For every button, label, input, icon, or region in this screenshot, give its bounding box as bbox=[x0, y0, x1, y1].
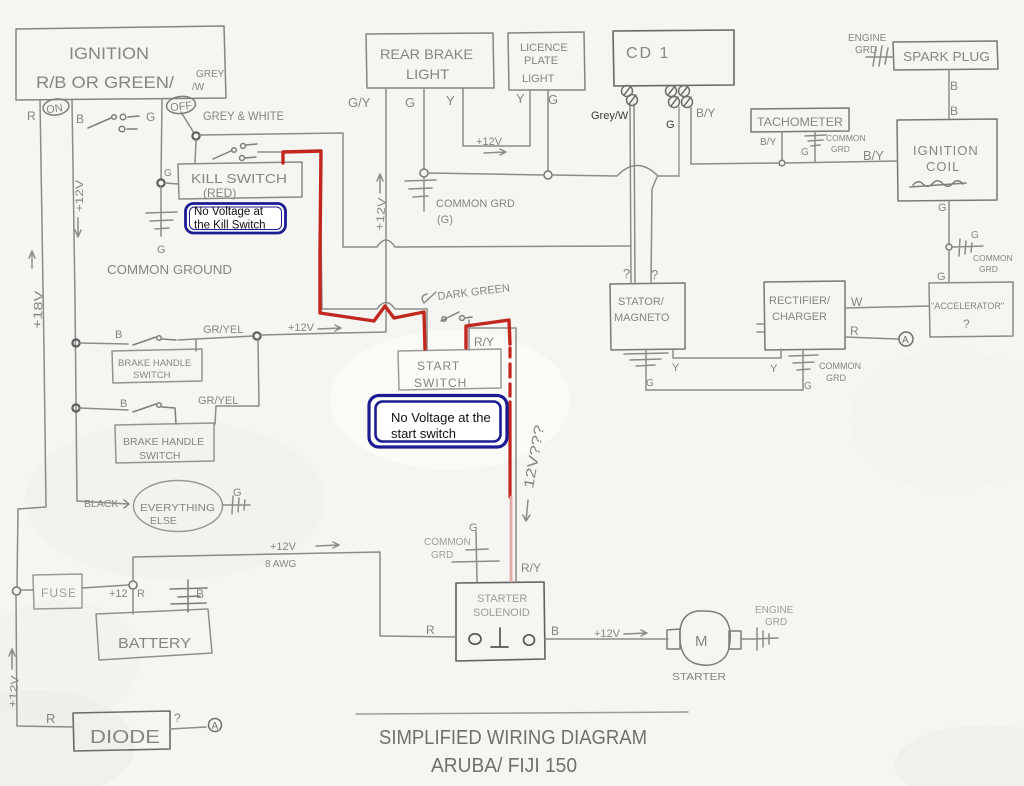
block STATOR/MAGNETO bbox=[610, 283, 685, 350]
wire node down into kill switch bbox=[195, 140, 196, 163]
node OFF junction bbox=[192, 132, 199, 139]
svg-text:ENGINE: ENGINE bbox=[848, 33, 887, 44]
wire R rectifier to point A bbox=[845, 337, 898, 339]
node licence ground bbox=[544, 171, 552, 179]
svg-text:+12: +12 bbox=[109, 588, 128, 600]
wire battery node down bbox=[132, 589, 134, 614]
svg-text:CD 1: CD 1 bbox=[626, 45, 670, 62]
wire start switch pencil into box and R/Y down to solenoid bbox=[469, 320, 516, 582]
svg-text:No Voltage at the: No Voltage at the bbox=[391, 410, 491, 425]
wire node to diode bbox=[16, 595, 73, 727]
paper shading bbox=[0, 330, 1024, 786]
svg-text:ELSE: ELSE bbox=[150, 515, 177, 527]
svg-text:COIL: COIL bbox=[926, 159, 960, 174]
block CD1 bbox=[613, 30, 734, 86]
svg-text:G: G bbox=[469, 522, 478, 534]
wire B from ignition down (black wire) bbox=[72, 100, 77, 501]
block BRAKE HANDLE SWITCH 2 bbox=[115, 423, 214, 463]
ground common ground below kill switch node bbox=[146, 187, 177, 236]
block REAR BRAKE LIGHT bbox=[366, 33, 494, 88]
arrow up +18V left side bbox=[29, 251, 35, 268]
svg-text:No Voltage at: No Voltage at bbox=[194, 206, 264, 218]
svg-text:GR/YEL: GR/YEL bbox=[198, 395, 238, 407]
motor STARTER left tab bbox=[667, 629, 680, 649]
svg-text:G: G bbox=[971, 230, 979, 241]
arrow +12V battery wire bbox=[316, 542, 339, 548]
wire node1 to brake switch 1 bbox=[80, 343, 128, 344]
wire G from ignition bbox=[161, 100, 162, 180]
block STARTER SOLENOID bbox=[456, 582, 545, 661]
arrow dark green pointer bbox=[422, 292, 436, 303]
title underline bbox=[356, 712, 688, 714]
svg-text:SPARK PLUG: SPARK PLUG bbox=[903, 49, 990, 64]
svg-text:B: B bbox=[76, 112, 84, 126]
wire B spark plug to ignition coil bbox=[948, 70, 950, 119]
svg-text:IGNITION: IGNITION bbox=[913, 143, 979, 158]
svg-text:LICENCE: LICENCE bbox=[520, 42, 568, 54]
svg-text:STARTER: STARTER bbox=[477, 593, 527, 605]
wire W rectifier to accelerator bbox=[845, 306, 929, 308]
node brake switch 1 tap bbox=[72, 339, 79, 346]
svg-text:+12V: +12V bbox=[594, 628, 621, 640]
svg-text:GRD: GRD bbox=[765, 617, 787, 628]
block RECTIFIER/CHARGER bbox=[764, 281, 845, 350]
svg-text:G: G bbox=[146, 110, 155, 124]
wire B/Y CD1 to tachometer line bbox=[691, 107, 779, 164]
svg-text:+12V: +12V bbox=[476, 136, 503, 148]
ground rectifier common grd bbox=[789, 349, 818, 390]
svg-text:STARTER: STARTER bbox=[672, 671, 726, 683]
svg-text:B/Y: B/Y bbox=[760, 137, 776, 148]
svg-text:B: B bbox=[115, 329, 122, 341]
wire +12V node2 to G/Y junction bbox=[261, 332, 386, 335]
svg-text:COMMON: COMMON bbox=[819, 361, 861, 371]
svg-text:GREY: GREY bbox=[196, 69, 225, 80]
svg-text:R: R bbox=[850, 324, 859, 338]
wire red highlight start switch to R/Y bbox=[466, 320, 510, 348]
node kill switch G junction bbox=[157, 179, 164, 186]
block EVERYTHING ELSE (ellipse) bbox=[134, 481, 223, 532]
svg-text:W: W bbox=[851, 295, 863, 309]
svg-text:COMMON GROUND: COMMON GROUND bbox=[107, 262, 232, 277]
svg-text:R: R bbox=[426, 623, 435, 637]
wire G ignition coil down bbox=[948, 201, 950, 243]
switch pivot circles start switch bbox=[442, 317, 446, 321]
switch contacts ignition bbox=[88, 116, 139, 129]
svg-text:COMMON: COMMON bbox=[973, 253, 1013, 263]
ground stator magneto bbox=[624, 349, 668, 390]
svg-text:REAR BRAKE: REAR BRAKE bbox=[380, 46, 473, 62]
wire node to fuse bbox=[21, 589, 33, 591]
svg-text:G: G bbox=[938, 202, 947, 214]
svg-text:BATTERY: BATTERY bbox=[118, 635, 191, 652]
wire G licence down bbox=[547, 90, 549, 171]
svg-text:CHARGER: CHARGER bbox=[772, 311, 827, 323]
svg-text:M: M bbox=[695, 633, 708, 650]
svg-text:?: ? bbox=[174, 711, 181, 725]
svg-text:PLATE: PLATE bbox=[524, 55, 558, 67]
wire G ground bus stator to rectifier bbox=[646, 389, 803, 391]
svg-text:COMMON GRD: COMMON GRD bbox=[436, 198, 515, 210]
wire horizontal to stator with hump over G/Y bbox=[343, 240, 631, 247]
block IGNITION COIL bbox=[897, 119, 997, 201]
wire solenoid B to starter bbox=[545, 638, 668, 640]
svg-text:Grey/W: Grey/W bbox=[591, 110, 629, 122]
svg-text:GRD: GRD bbox=[831, 144, 850, 154]
wire tachometer B/Y pin bbox=[781, 132, 783, 160]
svg-text:BRAKE HANDLE: BRAKE HANDLE bbox=[123, 436, 204, 448]
svg-text:RECTIFIER/: RECTIFIER/ bbox=[769, 295, 831, 307]
svg-text:G: G bbox=[157, 244, 166, 256]
svg-text:LIGHT: LIGHT bbox=[406, 66, 449, 82]
svg-text:R: R bbox=[27, 109, 36, 123]
svg-text:B/Y: B/Y bbox=[696, 106, 715, 120]
svg-text:B: B bbox=[120, 398, 127, 410]
node battery positive bbox=[129, 581, 137, 589]
svg-text:ON: ON bbox=[46, 102, 64, 116]
svg-text:IGNITION: IGNITION bbox=[69, 44, 149, 63]
svg-text:FUSE: FUSE bbox=[41, 586, 77, 600]
svg-text:B: B bbox=[950, 79, 958, 93]
arrow +12V to starter bbox=[624, 630, 647, 636]
svg-text:B: B bbox=[950, 104, 958, 118]
svg-text:"ACCELERATOR": "ACCELERATOR" bbox=[931, 301, 1004, 311]
svg-text:R: R bbox=[137, 588, 145, 600]
svg-text:/W: /W bbox=[192, 82, 205, 93]
block SPARK PLUG bbox=[893, 41, 998, 70]
svg-text:G/Y: G/Y bbox=[348, 95, 371, 110]
wire R from ignition down left side bbox=[17, 100, 46, 586]
svg-text:R: R bbox=[46, 711, 55, 726]
svg-text:GRD: GRD bbox=[431, 550, 453, 561]
svg-text:GRD: GRD bbox=[855, 45, 877, 56]
node point A circle bbox=[899, 332, 913, 346]
ground common grd at solenoid bbox=[452, 531, 499, 582]
wire node2 down to brake switch 2 bbox=[215, 340, 259, 424]
svg-text:START: START bbox=[417, 359, 460, 373]
wire G from CD1 down to common ground bbox=[678, 107, 680, 176]
svg-text:(RED): (RED) bbox=[203, 186, 236, 200]
svg-text:GREY & WHITE: GREY & WHITE bbox=[203, 109, 284, 123]
wire OFF to node bbox=[181, 112, 194, 133]
block FUSE bbox=[33, 574, 82, 609]
switch contacts brake switch 1 bbox=[133, 337, 176, 345]
svg-text:the Kill Switch: the Kill Switch bbox=[194, 220, 266, 232]
pin ticks rectifier left bbox=[757, 324, 764, 332]
svg-text:Y: Y bbox=[446, 93, 455, 108]
svg-text:COMMON: COMMON bbox=[424, 537, 471, 548]
svg-text:SOLENOID: SOLENOID bbox=[473, 607, 530, 619]
arrow +12V right bbox=[318, 325, 341, 331]
wire grey&white node to right and down bbox=[200, 133, 343, 247]
arrow up +12V bottom left bbox=[9, 649, 15, 669]
ground engine grd at spark plug bbox=[866, 46, 893, 66]
arrow +12V licence link bbox=[484, 149, 506, 155]
switch pivot circle brake switch 2 bbox=[157, 403, 162, 408]
wire red faded to solenoid bbox=[510, 497, 513, 581]
svg-text:SWITCH: SWITCH bbox=[414, 376, 467, 390]
block START SWITCH bbox=[398, 349, 501, 390]
svg-text:G: G bbox=[801, 147, 809, 158]
svg-text:GRD: GRD bbox=[979, 264, 998, 274]
solenoid contact circle right bbox=[524, 635, 535, 645]
ground common grd ignition coil bbox=[953, 239, 983, 256]
svg-text:G: G bbox=[405, 95, 415, 110]
wire red dashed R/Y down bbox=[508, 348, 511, 497]
node GR/YEL junction bbox=[253, 332, 260, 339]
solenoid plunger symbol bbox=[491, 628, 508, 647]
wire G to accelerator bbox=[948, 251, 950, 282]
node point A circle at diode bbox=[209, 719, 222, 732]
svg-text:SWITCH: SWITCH bbox=[139, 450, 180, 462]
svg-text:?: ? bbox=[651, 267, 658, 282]
svg-text:?: ? bbox=[963, 317, 970, 331]
wire node3 to brake switch 2 bbox=[80, 408, 128, 410]
wire Grey/W pair CD1 to stator bbox=[630, 104, 635, 284]
wire common ground horizontal with hump over Grey/W pair bbox=[428, 166, 679, 177]
svg-text:G: G bbox=[233, 487, 242, 499]
wire G rear brake to ground node bbox=[423, 88, 425, 169]
svg-text:R/Y: R/Y bbox=[474, 335, 494, 349]
svg-text:GR/YEL: GR/YEL bbox=[203, 324, 243, 336]
svg-text:?: ? bbox=[623, 266, 630, 281]
motor STARTER right tab bbox=[729, 631, 741, 649]
switch pivot circles kill switch bbox=[232, 148, 237, 153]
svg-text:Y: Y bbox=[516, 91, 525, 106]
svg-text:B/Y: B/Y bbox=[863, 148, 884, 163]
svg-text:STATOR/: STATOR/ bbox=[618, 296, 665, 308]
svg-text:G: G bbox=[646, 378, 654, 389]
wire diode to point A bbox=[170, 727, 206, 729]
node rear brake ground bbox=[420, 169, 428, 177]
svg-text:G: G bbox=[548, 92, 558, 107]
wire Y rear brake to licence +12V link bbox=[463, 88, 530, 146]
svg-text:KILL SWITCH: KILL SWITCH bbox=[191, 171, 287, 186]
svg-text:A: A bbox=[212, 721, 219, 732]
svg-text:A: A bbox=[902, 335, 909, 346]
ellipse ON marker bbox=[42, 97, 70, 116]
ground common grd rear brake bbox=[405, 177, 436, 211]
ground engine grd at starter bbox=[753, 628, 778, 650]
wire third into stator bbox=[651, 177, 657, 283]
svg-text:ARUBA/ FIJI 150: ARUBA/ FIJI 150 bbox=[431, 755, 577, 777]
arrow down +12V along B wire bbox=[75, 218, 81, 237]
svg-text:B: B bbox=[551, 624, 559, 638]
block DIODE bbox=[73, 711, 170, 751]
svg-text:R/B OR GREEN/: R/B OR GREEN/ bbox=[36, 73, 174, 92]
connector CD1 pair 2 bbox=[666, 86, 693, 108]
svg-text:G: G bbox=[666, 119, 675, 131]
svg-text:COMMON: COMMON bbox=[826, 133, 866, 143]
battery terminal B plates bbox=[170, 580, 207, 612]
switch pivot circles ignition bbox=[112, 115, 117, 120]
block TACHOMETER bbox=[751, 108, 849, 132]
switch contacts start switch bbox=[441, 312, 472, 321]
node tachometer B/Y bbox=[779, 160, 785, 166]
arrow +12V up along G/Y bbox=[377, 174, 383, 193]
wire Y stator to rectifier bbox=[673, 349, 781, 358]
wire pencil kill switch to start switch (under red) bbox=[258, 152, 427, 350]
svg-text:GRD: GRD bbox=[826, 373, 847, 383]
svg-text:G: G bbox=[937, 271, 946, 283]
svg-text:LIGHT: LIGHT bbox=[522, 73, 555, 85]
wire BLACK to everything else bbox=[77, 500, 129, 508]
callout box No Voltage at the start switch bbox=[369, 396, 507, 448]
svg-text:BRAKE HANDLE: BRAKE HANDLE bbox=[118, 358, 191, 369]
wire B/Y to ignition coil bbox=[785, 161, 897, 163]
block IGNITION switch bbox=[16, 26, 226, 100]
svg-text:start switch: start switch bbox=[391, 426, 456, 441]
svg-text:B: B bbox=[196, 587, 204, 601]
svg-text:DIODE: DIODE bbox=[90, 727, 160, 747]
switch contacts brake switch 2 bbox=[133, 404, 176, 424]
svg-text:(G): (G) bbox=[437, 214, 453, 226]
svg-text:R/Y: R/Y bbox=[521, 561, 541, 575]
motor STARTER body bbox=[680, 611, 730, 665]
callout box No Voltage at the Kill Switch bbox=[186, 204, 286, 234]
ground tachometer G pin bbox=[805, 132, 826, 162]
wire starter to engine ground bbox=[741, 638, 753, 640]
scribble inside ignition coil bbox=[910, 181, 966, 187]
svg-text:8 AWG: 8 AWG bbox=[265, 559, 297, 570]
svg-text:+12V: +12V bbox=[74, 179, 86, 212]
svg-text:+12V: +12V bbox=[288, 322, 315, 334]
svg-text:ENGINE: ENGINE bbox=[755, 605, 794, 616]
node ignition coil ground bbox=[946, 244, 952, 250]
wire GR/YEL switch1 to node2 bbox=[178, 336, 253, 351]
wire G/Y from rear brake light down bbox=[385, 88, 387, 331]
node brake switch 2 tap bbox=[72, 404, 79, 411]
ground everything-else bbox=[223, 496, 250, 514]
svg-text:Y: Y bbox=[770, 363, 778, 375]
node fuse-left junction bbox=[13, 587, 21, 595]
wire fuse to battery node bbox=[82, 585, 128, 588]
arrow down 12V??? bbox=[523, 500, 530, 521]
wire red highlight kill switch to start switch bbox=[283, 151, 425, 349]
block BATTERY bbox=[96, 609, 212, 660]
svg-text:Y: Y bbox=[672, 362, 680, 374]
svg-text:+18V: +18V bbox=[30, 290, 46, 329]
wire node to kill switch box bbox=[165, 183, 178, 184]
ellipse OFF marker bbox=[166, 95, 197, 115]
svg-text:EVERYTHING: EVERYTHING bbox=[140, 502, 215, 514]
svg-text:MAGNETO: MAGNETO bbox=[614, 312, 670, 324]
wire battery +12V 8AWG to solenoid bbox=[133, 552, 456, 637]
svg-text:TACHOMETER: TACHOMETER bbox=[757, 115, 843, 129]
solenoid contact circle left bbox=[469, 634, 481, 644]
svg-text:SWITCH: SWITCH bbox=[133, 370, 171, 381]
block BRAKE HANDLE SWITCH 1 bbox=[112, 349, 202, 383]
block LICENCE PLATE LIGHT bbox=[508, 32, 585, 90]
switch pivot circle brake switch 1 bbox=[157, 336, 162, 341]
block ACCELERATOR bbox=[929, 282, 1013, 337]
switch contacts kill switch bbox=[213, 144, 257, 159]
svg-text:SIMPLIFIED WIRING DIAGRAM: SIMPLIFIED WIRING DIAGRAM bbox=[379, 727, 647, 749]
block KILL SWITCH bbox=[178, 162, 302, 199]
svg-text:BLACK: BLACK bbox=[84, 498, 118, 510]
svg-text:G: G bbox=[804, 381, 812, 392]
svg-text:OFF: OFF bbox=[170, 100, 193, 114]
svg-text:+12V: +12V bbox=[270, 541, 297, 553]
svg-text:G: G bbox=[164, 168, 172, 179]
connector CD1 pair 1 bbox=[622, 86, 638, 106]
